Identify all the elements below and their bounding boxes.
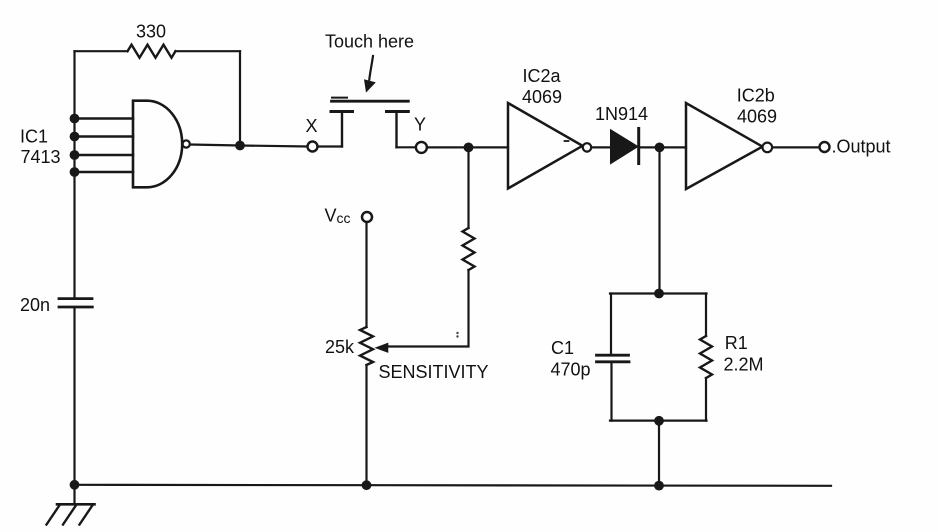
wire IC2b to output terminal bbox=[773, 146, 820, 148]
terminal X circle bbox=[308, 142, 318, 152]
node B junction dot bbox=[655, 143, 665, 153]
wire R1 top branch bbox=[705, 294, 707, 337]
svg-text:IC1: IC1 bbox=[20, 127, 48, 147]
svg-text:C1: C1 bbox=[551, 338, 574, 358]
svg-text:Y: Y bbox=[414, 115, 426, 135]
nand gate IC1 body bbox=[133, 101, 182, 188]
node input 4 dot bbox=[70, 167, 80, 177]
potentiometer 25k bbox=[360, 327, 373, 365]
touch contact right post bbox=[395, 112, 397, 148]
wire right contact to Y bbox=[397, 146, 416, 148]
svg-text:SENSITIVITY: SENSITIVITY bbox=[379, 362, 489, 382]
wire C1/R1 bottom rail bbox=[610, 420, 707, 422]
wire IC1 output to X terminal bbox=[190, 145, 308, 147]
node C1R1-ground dot bbox=[654, 481, 664, 491]
wire feedback top right bbox=[176, 50, 241, 52]
node input 2 dot bbox=[70, 132, 80, 142]
wire C1R1 bottom to ground bbox=[658, 421, 660, 486]
nand IC1 output bubble bbox=[183, 140, 190, 147]
wire IC2a to diode bbox=[592, 146, 612, 148]
wire Y to node A bbox=[427, 146, 508, 148]
capacitor 20n top plate bbox=[59, 297, 92, 300]
wire C1 top branch bbox=[610, 294, 612, 355]
svg-text:.Output: .Output bbox=[832, 137, 891, 157]
wire feedback right vertical bbox=[239, 51, 241, 145]
wire diode to node B bbox=[640, 146, 686, 148]
node ground-left dot bbox=[70, 480, 80, 490]
node A junction dot bbox=[464, 143, 474, 153]
svg-text:R1: R1 bbox=[725, 333, 748, 353]
wire X to left contact bbox=[318, 145, 343, 147]
wire IC1 input 1 bbox=[75, 117, 134, 120]
touch-here arrow shaft bbox=[369, 56, 373, 80]
touch-here arrowhead bbox=[364, 79, 376, 92]
wire node B down to C1/R1 top bbox=[658, 152, 660, 294]
node input 3 dot bbox=[70, 150, 80, 160]
svg-text:25k: 25k bbox=[325, 337, 355, 357]
diode D1 cathode bar bbox=[637, 129, 640, 164]
node C1R1 top junction dot bbox=[654, 289, 664, 299]
wire node A down to series resistor bbox=[467, 147, 469, 228]
terminal Output circle bbox=[820, 142, 830, 152]
svg-text:4069: 4069 bbox=[737, 107, 777, 127]
wire IC1 input 2 bbox=[75, 135, 134, 138]
diode D1 1N914 body bbox=[611, 131, 637, 163]
inverter IC2a body bbox=[508, 103, 583, 189]
capacitor 20n bottom plate bbox=[59, 306, 92, 309]
svg-text:20n: 20n bbox=[20, 295, 50, 315]
svg-text:IC2b: IC2b bbox=[737, 86, 775, 106]
wire ground stub bbox=[73, 485, 75, 505]
resistor R1 bbox=[700, 336, 712, 378]
svg-text:X: X bbox=[306, 116, 318, 136]
speckle near wiper corner bbox=[456, 332, 458, 334]
inverter IC2b body bbox=[686, 103, 763, 189]
ground symbol slash 2 bbox=[63, 505, 77, 525]
inverter IC2a bubble bbox=[583, 143, 591, 151]
svg-text:4069: 4069 bbox=[522, 87, 562, 107]
svg-text:Touch here: Touch here bbox=[325, 32, 414, 52]
wire C1 bottom branch bbox=[610, 363, 612, 421]
touch plate double line artifact bbox=[332, 97, 347, 99]
svg-text:470p: 470p bbox=[551, 360, 591, 380]
wire IC1 input 3 bbox=[75, 154, 134, 157]
touch plate top line bbox=[332, 100, 409, 103]
wire ground rail bbox=[73, 485, 831, 486]
svg-text:7413: 7413 bbox=[21, 147, 61, 167]
wire pot bottom to ground bbox=[365, 365, 367, 485]
touch contact right cap bbox=[387, 110, 409, 113]
wire left vertical top (IC1 inputs to feedback) bbox=[73, 51, 75, 298]
touch contact left post bbox=[341, 112, 343, 147]
svg-text:Vcc: Vcc bbox=[325, 206, 351, 227]
wire series resistor to wiper corner bbox=[388, 270, 469, 347]
inverter IC2b bubble bbox=[763, 143, 773, 153]
terminal Vcc circle bbox=[362, 212, 372, 222]
pot wiper arrowhead bbox=[375, 343, 389, 353]
node input 1 dot bbox=[70, 114, 80, 124]
touch contact left cap bbox=[331, 110, 353, 113]
svg-text:2.2M: 2.2M bbox=[724, 355, 764, 375]
resistor 330 bbox=[128, 45, 176, 58]
wire IC1 input 4 bbox=[75, 171, 134, 174]
resistor series (wiper feed) bbox=[463, 228, 475, 270]
svg-text:IC2a: IC2a bbox=[523, 66, 562, 86]
wire C1/R1 top rail bbox=[610, 292, 707, 294]
node junction feedback/output dot bbox=[235, 141, 245, 151]
capacitor C1 bottom plate bbox=[597, 360, 630, 363]
node pot-ground dot bbox=[362, 480, 372, 490]
wire feedback top bbox=[75, 50, 128, 52]
svg-text:1N914: 1N914 bbox=[595, 104, 648, 124]
terminal Y circle bbox=[416, 142, 427, 153]
ground symbol slash 1 bbox=[47, 505, 61, 525]
speckle near IC2a apex bbox=[565, 140, 569, 142]
wire 20n bottom to ground bbox=[73, 308, 75, 485]
wire Vcc to pot bbox=[365, 222, 367, 327]
svg-text:330: 330 bbox=[136, 22, 166, 42]
ground symbol slash 3 bbox=[80, 505, 94, 525]
ground symbol bar bbox=[57, 503, 95, 506]
capacitor C1 top plate bbox=[597, 354, 629, 357]
wire R1 bottom branch bbox=[705, 378, 707, 421]
node C1R1 bottom junction dot bbox=[654, 416, 664, 426]
